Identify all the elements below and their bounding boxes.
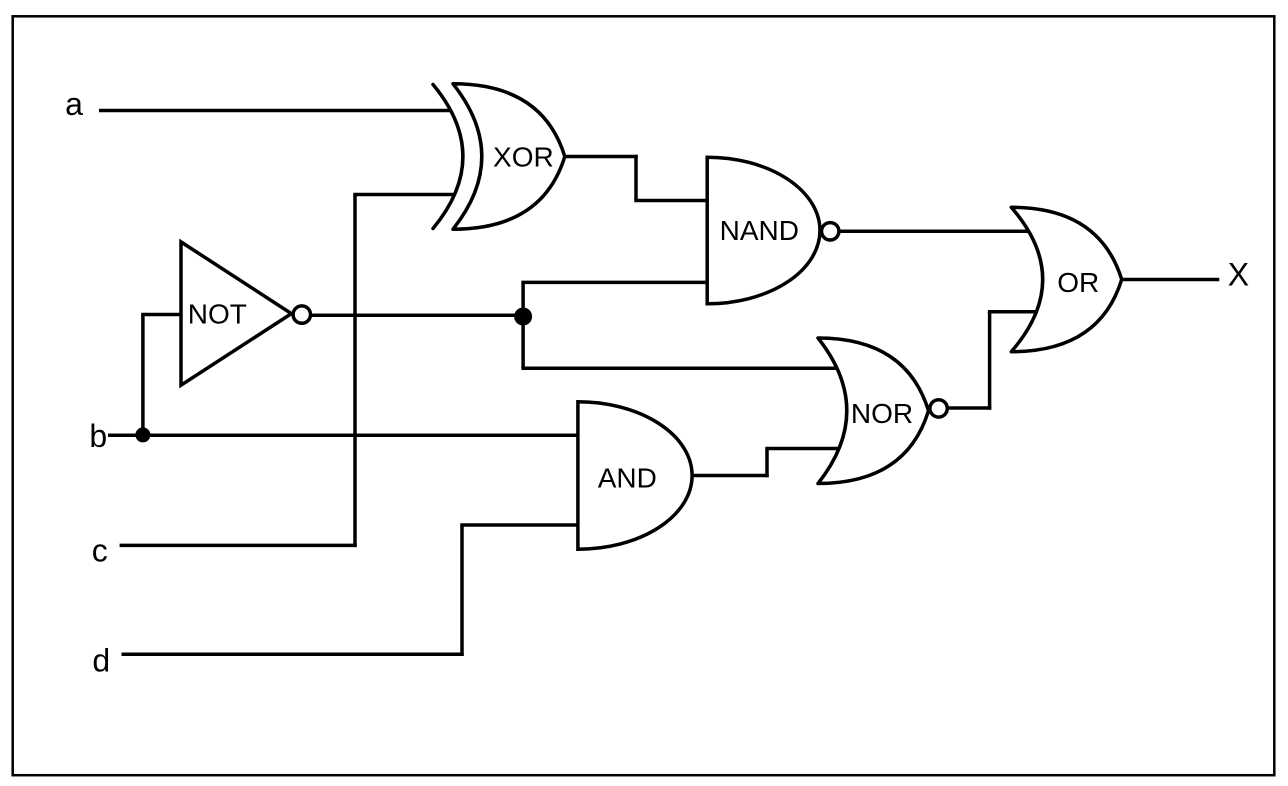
wire d vertical riser [460,525,464,656]
svg-text:NOR: NOR [851,398,913,429]
wire b riser to NOT input [141,315,145,437]
svg-text:d: d [92,643,110,679]
wire NOR output [949,406,992,410]
wire NAND output to OR upper input [840,230,1040,234]
svg-text:OR: OR [1057,267,1099,298]
wire NOT input [141,313,182,317]
wire NOR-OR riser up [988,312,992,410]
junction dot at NOT output [514,308,532,326]
bubble NOT output [293,306,310,323]
bubble NOR output [930,400,947,417]
wire XOR output [564,155,638,159]
wire junction to NOR upper input [521,366,842,370]
wire c to XOR lower input [353,193,454,197]
bubble NAND output [822,223,839,240]
wire junction riser up [521,282,525,316]
wire AND output [691,474,769,478]
svg-text:a: a [65,86,83,122]
svg-text:X: X [1228,257,1249,293]
wire NOT output to junction [312,314,523,318]
wire input c horizontal [120,544,357,548]
wire junction to NAND lower input [521,281,709,285]
svg-text:NOT: NOT [188,298,247,329]
wire to NOR lower input [765,447,845,451]
svg-text:AND: AND [598,463,657,494]
wire OR output to X [1120,278,1219,282]
junction dot at b [135,427,150,442]
gate AND body [578,402,692,549]
gate XOR leading arc [433,85,463,229]
wire d to AND lower input [460,523,579,527]
svg-text:NAND: NAND [720,215,799,246]
wire to NAND upper input [634,199,709,203]
wire input d horizontal [122,653,464,657]
gate XOR body [453,84,565,229]
wire input a to XOR [99,109,451,113]
gate NOR body [818,338,929,484]
wire XOR-NAND step down [634,155,638,201]
gate OR body [1011,207,1121,351]
gate NAND body [707,157,820,304]
wire AND-NOR step up [765,449,769,478]
gate NOT triangle [181,242,291,385]
wire c vertical riser [353,195,357,548]
svg-text:XOR: XOR [493,141,554,172]
wire junction riser down [521,317,525,369]
wire to OR lower input [988,310,1042,314]
svg-text:c: c [92,533,108,569]
wire input b to AND [108,434,579,438]
svg-text:b: b [89,418,107,454]
